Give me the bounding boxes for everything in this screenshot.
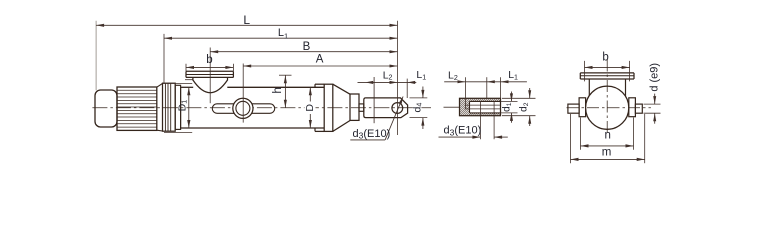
section tube hatching (460, 98, 501, 115)
svg-text:b: b (602, 51, 608, 63)
svg-text:d3(E10): d3(E10) (444, 125, 482, 138)
dimension D1 line with arrows (188, 87, 190, 128)
end view trunnion block left (579, 98, 586, 117)
dimension L (96, 24, 397, 26)
wire: end view vertical centerline (606, 60, 608, 135)
wire: D1 bottom extension line (164, 132, 192, 134)
dimension d4 arrows and extensions (410, 97, 428, 99)
svg-text:D: D (304, 104, 316, 112)
wire: eye centerline / right extension for L,L1,B,A (397, 21, 399, 135)
wire: axis stub left of section (444, 106, 460, 108)
wire: end view horizontal centerline (567, 107, 651, 109)
rod-end clevis body (364, 98, 408, 118)
dimension A (243, 65, 397, 67)
end view trunnion block right (629, 98, 636, 117)
wire: eye hole edge lines in section (479, 101, 481, 139)
dimension L2/L1 section line (444, 81, 527, 83)
dimension h line with arrows (279, 74, 292, 76)
svg-text:m: m (602, 147, 612, 159)
wire: L left extension (95, 21, 97, 90)
wire: short boss extension (185, 79, 193, 81)
svg-text:L: L (243, 13, 250, 27)
wire: d2 extension lines (502, 97, 536, 99)
dimension b line with arrows (185, 64, 187, 71)
wire: thread bore lines (465, 104, 501, 106)
svg-text:h: h (272, 87, 284, 93)
wire: n extension lines (580, 118, 582, 150)
wire: main axis centerline (92, 107, 431, 109)
wire: D1 top extension line (163, 82, 192, 84)
wire: d(e9) extension lines (644, 103, 661, 105)
port boss dome (193, 77, 228, 92)
end view main circle (586, 86, 629, 129)
dimension m (571, 158, 645, 160)
motor chamfer top (157, 83, 163, 87)
wire: boss vertical centerline / B extension (209, 48, 211, 104)
dimension d2 arrows (529, 88, 531, 98)
dimension D line with arrows (309, 87, 311, 128)
dimension n (581, 145, 634, 147)
end view boss neck lines (588, 79, 590, 96)
dimension d1 arrows (511, 92, 513, 102)
section tube outline (460, 98, 501, 115)
cylinder tube body (181, 86, 194, 88)
dimension L1 (164, 37, 398, 39)
dimension L2/L1 shared line (358, 81, 417, 83)
wire: bolt extension lines (584, 61, 586, 82)
motor M1 finned body (117, 87, 157, 130)
dimension b end view (585, 66, 630, 68)
port boss flange plate (186, 70, 233, 72)
svg-text:b: b (206, 54, 212, 66)
cone collar (350, 94, 359, 120)
side port inner circle (236, 101, 250, 115)
flange sub-block (175, 85, 180, 129)
side port wings (212, 104, 274, 114)
piston rod stub (359, 104, 364, 111)
svg-text:n: n (604, 129, 610, 141)
wire: d1 extension lines (501, 100, 518, 102)
svg-text:d (e9): d (e9) (648, 63, 660, 92)
motor M1 end cap (95, 90, 117, 127)
svg-text:B: B (303, 41, 311, 53)
wire: port vertical centerline / A extension (242, 64, 244, 123)
wire: clevis feature line (373, 77, 375, 123)
end view trunnion pin left (568, 104, 579, 113)
cylinder end cap plate (324, 84, 333, 131)
svg-text:A: A (316, 54, 324, 66)
wire: hole centerline extension (486, 77, 488, 98)
motor chamfer bottom (157, 129, 163, 132)
section tube inner bore lines (470, 100, 501, 102)
dimension d(e9) arrows (654, 94, 656, 105)
mounting flange block (163, 83, 176, 131)
dimension d3(E10) section (439, 136, 481, 138)
wire: thread depth line / L2 left extension (465, 77, 467, 109)
svg-text:d3(E10): d3(E10) (353, 128, 391, 141)
wire: L1 left extension (163, 34, 165, 83)
end view flange plate (580, 72, 634, 74)
dimension B (210, 51, 397, 53)
wire: body right edge extension (500, 77, 502, 98)
cylinder end ring (314, 84, 316, 87)
end view trunnion pin right (635, 104, 642, 113)
wire: m extension lines (570, 114, 572, 163)
eye hole d3 (392, 103, 403, 114)
label D (305, 102, 316, 115)
side port outer circle (233, 98, 253, 118)
cone section (333, 84, 350, 94)
wire: L1 right extension (406, 79, 408, 98)
leader d3(E10) main view (350, 139, 385, 141)
